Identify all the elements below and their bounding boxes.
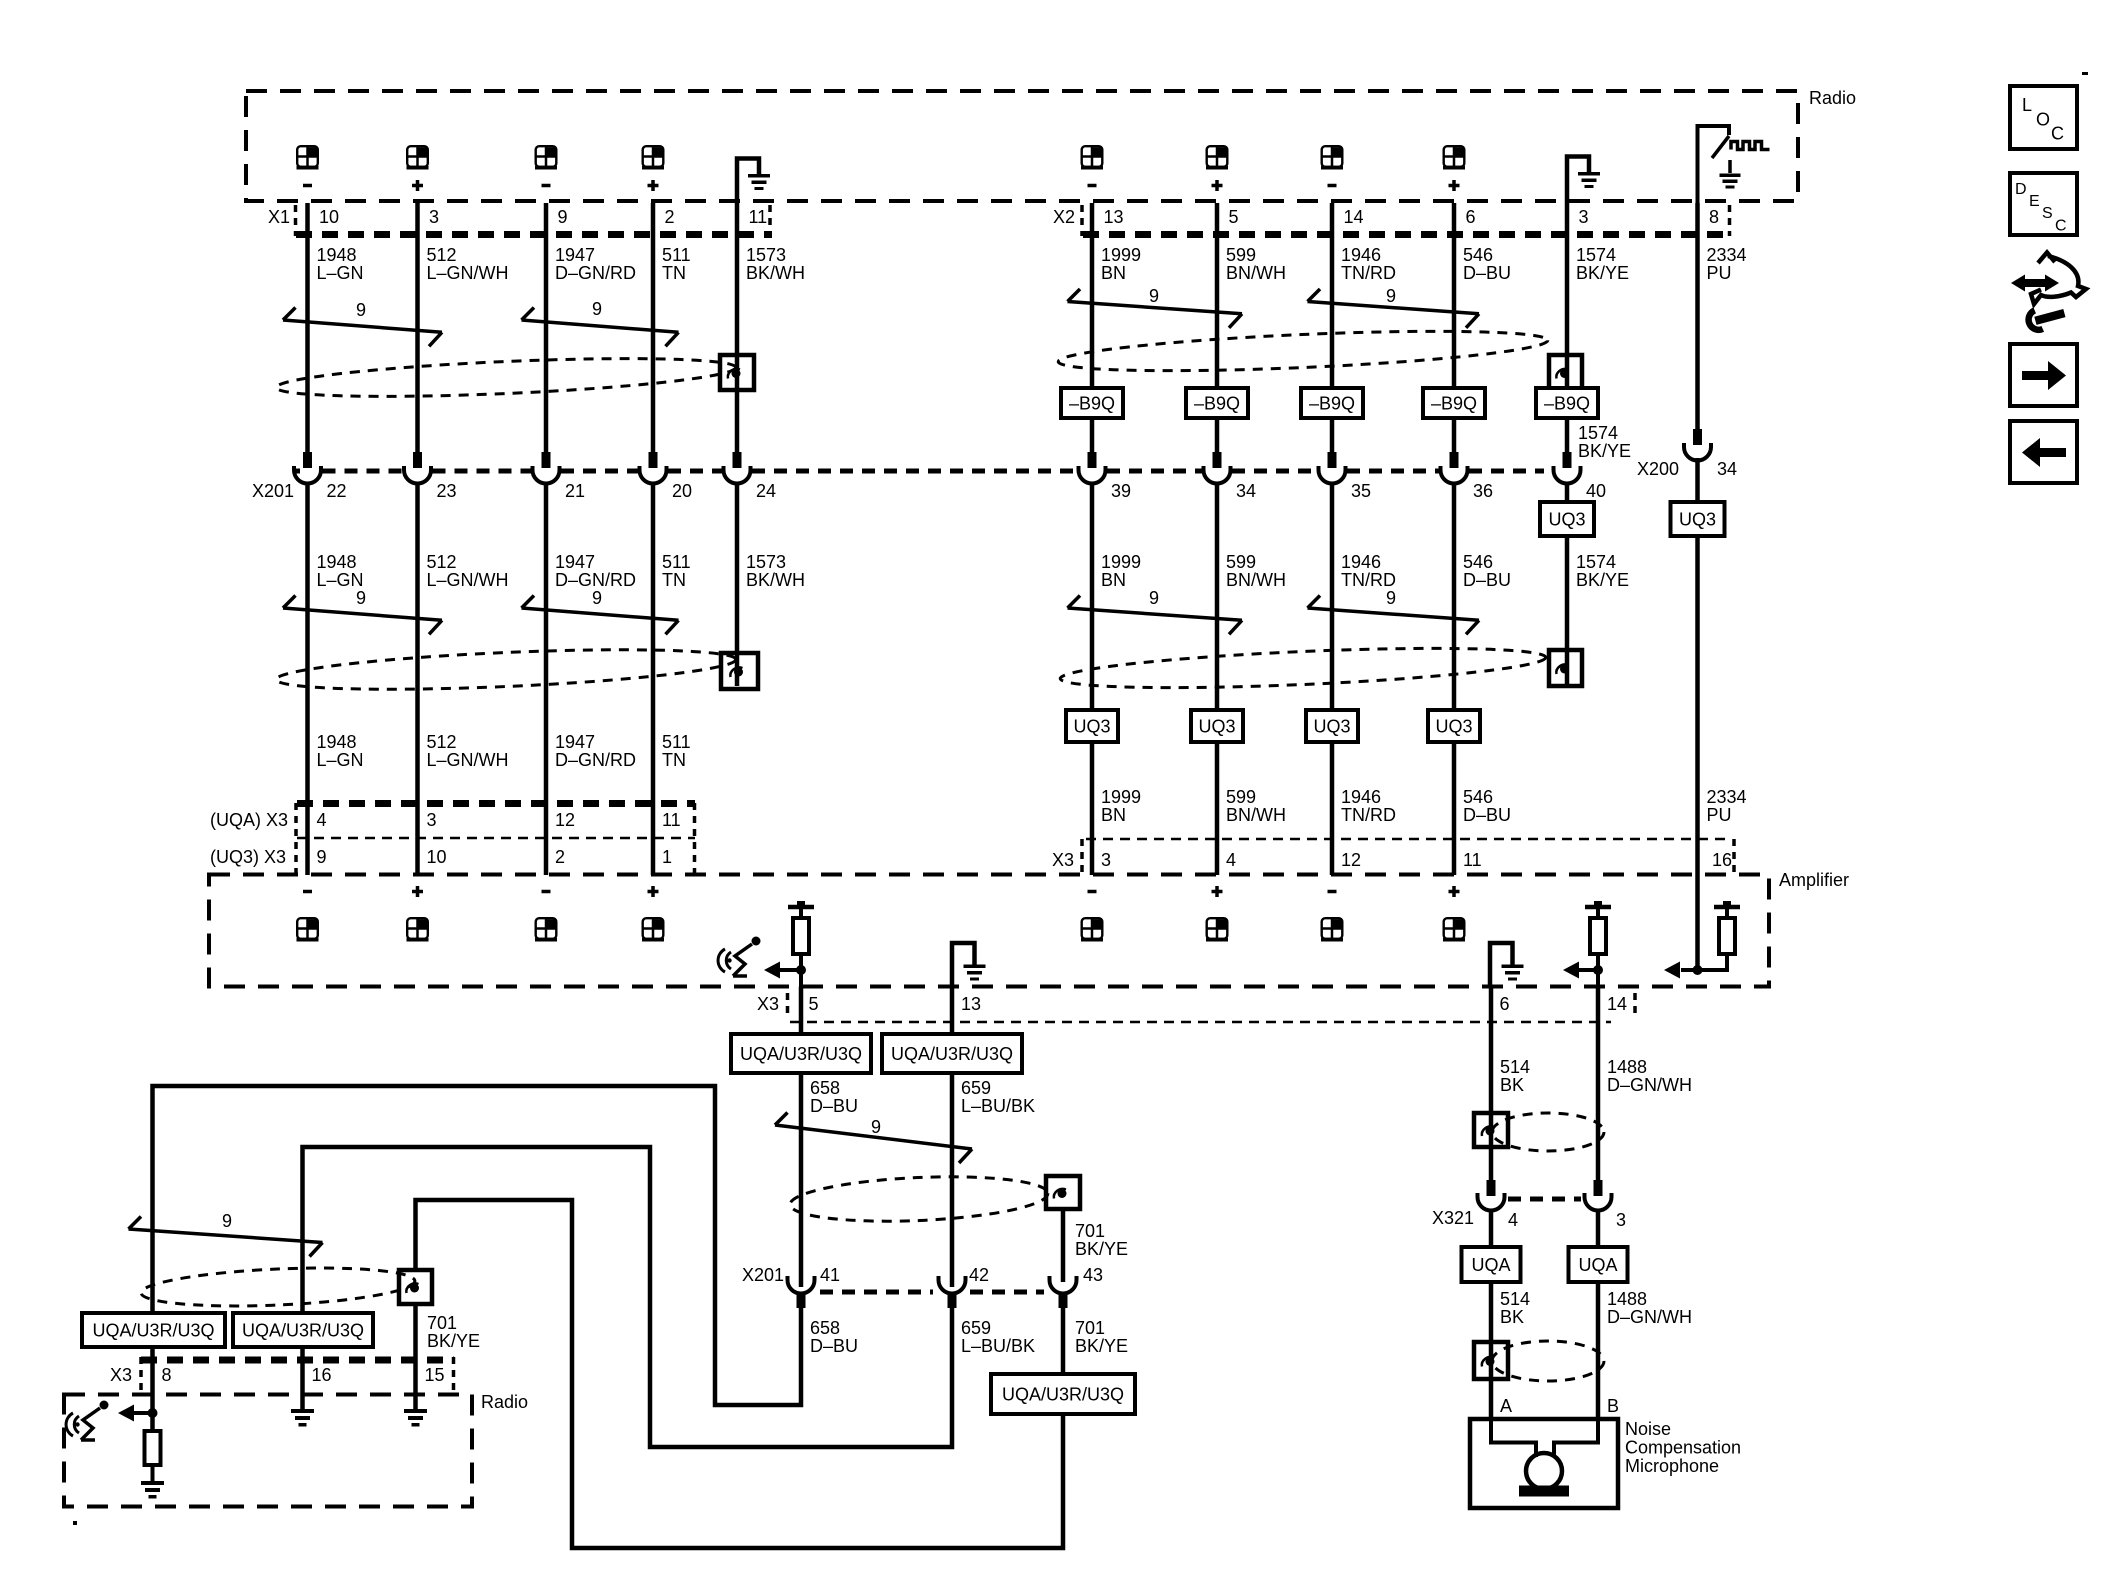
svg-text:599: 599 <box>1226 552 1256 572</box>
svg-text:BK/YE: BK/YE <box>427 1331 480 1351</box>
svg-text:O: O <box>2036 110 2050 130</box>
connector X201 row dotted line <box>293 469 301 474</box>
shield loop (658/659) <box>789 1172 1049 1226</box>
wire 1946 TN/RD <box>1330 203 1335 452</box>
audio output arrow to mic <box>764 962 780 979</box>
svg-text:41: 41 <box>820 1265 840 1285</box>
connector X3 strip (amplifier bottom) <box>786 993 790 1019</box>
svg-text:X321: X321 <box>1432 1208 1474 1228</box>
svg-text:Compensation: Compensation <box>1625 1438 1741 1458</box>
polarity + <box>1212 886 1223 897</box>
ground symbol (radio pin 3 / 1574) <box>1567 157 1589 204</box>
Noise Compensation Microphone box <box>1470 1419 1618 1508</box>
X201 pin 21 <box>542 452 551 468</box>
option box -B9Q <box>1061 388 1123 418</box>
wire 599 BN/WH (middle) <box>1215 484 1220 876</box>
twisted pair marker 9 (1946/546) <box>1308 302 1480 314</box>
svg-text:9: 9 <box>592 299 602 319</box>
microphone pictograph (amplifier) <box>718 937 760 977</box>
svg-text:BK/WH: BK/WH <box>746 263 805 283</box>
svg-text:TN: TN <box>662 750 686 770</box>
svg-text:D–GN/RD: D–GN/RD <box>555 570 636 590</box>
svg-text:BK/YE: BK/YE <box>1576 570 1629 590</box>
svg-text:11: 11 <box>1463 850 1482 870</box>
svg-text:4: 4 <box>1508 1210 1518 1230</box>
X201 pin 35 <box>1328 452 1337 468</box>
junction <box>1693 965 1703 975</box>
stray mark top right <box>2082 72 2088 75</box>
twisted pair marker 9 (1947/511) <box>522 320 679 332</box>
svg-text:UQA/U3R/U3Q: UQA/U3R/U3Q <box>242 1321 364 1341</box>
svg-text:TN/RD: TN/RD <box>1341 263 1396 283</box>
svg-text:13: 13 <box>961 994 981 1014</box>
stray mark bottom left <box>73 1521 77 1525</box>
svg-text:9: 9 <box>1149 286 1159 306</box>
wire 1946 TN/RD (middle) <box>1330 484 1335 876</box>
svg-text:UQ3: UQ3 <box>1313 717 1350 737</box>
connector (UQA) X3 strip <box>297 800 695 807</box>
svg-text:2: 2 <box>665 207 675 227</box>
option box UQA/U3R/U3Q (701) <box>991 1374 1135 1414</box>
svg-text:1948: 1948 <box>317 732 357 752</box>
svg-text:BN/WH: BN/WH <box>1226 570 1286 590</box>
polarity - <box>542 890 551 894</box>
X201 pin 20 <box>649 452 658 468</box>
termination resistor (2334) <box>1723 901 1731 905</box>
legend forward arrow box <box>2010 344 2077 406</box>
svg-text:1946: 1946 <box>1341 787 1381 807</box>
svg-text:3: 3 <box>1579 207 1589 227</box>
svg-text:1573: 1573 <box>746 245 786 265</box>
svg-text:TN: TN <box>662 570 686 590</box>
shield terminal row2 on 1574 <box>1549 650 1582 686</box>
svg-text:12: 12 <box>1341 850 1361 870</box>
svg-text:4: 4 <box>317 810 327 830</box>
svg-text:UQA/U3R/U3Q: UQA/U3R/U3Q <box>92 1321 214 1341</box>
shield loop row2 (left pairs) <box>275 642 736 696</box>
svg-text:A: A <box>1500 1396 1512 1416</box>
junction <box>148 1408 158 1418</box>
wire 1488 D-GN/WH (upper) <box>1596 987 1601 1181</box>
svg-text:2334: 2334 <box>1707 245 1747 265</box>
polarity - <box>542 184 551 188</box>
svg-text:9: 9 <box>1386 286 1396 306</box>
svg-text:6: 6 <box>1466 207 1476 227</box>
speaker symbol <box>1443 146 1465 169</box>
wire radio pin 8 into box <box>150 1347 155 1431</box>
wire 658 D-BU (radio side) <box>153 1086 802 1405</box>
svg-text:9: 9 <box>356 588 366 608</box>
wire 514 continues <box>1489 1282 1494 1419</box>
connector X201 (41/42/43) dashes <box>820 1290 933 1295</box>
shield terminal (mic upper) <box>1474 1113 1508 1147</box>
svg-text:11: 11 <box>749 207 768 227</box>
ground (amplifier pin 6) <box>1490 943 1513 987</box>
svg-text:L–GN/WH: L–GN/WH <box>427 570 509 590</box>
svg-text:–B9Q: –B9Q <box>1431 394 1477 414</box>
svg-text:TN/RD: TN/RD <box>1341 805 1396 825</box>
svg-text:42: 42 <box>969 1265 989 1285</box>
X321 pin 3 <box>1594 1180 1603 1196</box>
wire 1948 L–GN <box>305 203 310 452</box>
speaker symbol <box>1081 146 1103 169</box>
twisted pair marker 9 (1948/512) <box>283 320 442 332</box>
polarity + <box>648 180 659 191</box>
polarity - <box>303 184 312 188</box>
svg-text:S: S <box>2042 205 2053 222</box>
speaker symbol <box>1206 918 1228 941</box>
svg-text:701: 701 <box>1075 1318 1105 1338</box>
svg-text:15: 15 <box>425 1365 445 1385</box>
shield terminal (mic lower) <box>1474 1342 1508 1379</box>
svg-text:L–BU/BK: L–BU/BK <box>961 1096 1035 1116</box>
svg-text:L–BU/BK: L–BU/BK <box>961 1336 1035 1356</box>
svg-text:9: 9 <box>1149 588 1159 608</box>
twisted pair marker 9 (658/659) <box>775 1125 972 1149</box>
wire 514 BK (upper) <box>1489 987 1494 1181</box>
termination resistor (1488) <box>1594 901 1602 905</box>
speaker symbol <box>535 146 557 169</box>
svg-text:X2: X2 <box>1053 207 1075 227</box>
svg-text:1947: 1947 <box>555 732 595 752</box>
svg-text:512: 512 <box>427 732 457 752</box>
svg-text:43: 43 <box>1083 1265 1103 1285</box>
svg-text:3: 3 <box>429 207 439 227</box>
svg-text:1946: 1946 <box>1341 245 1381 265</box>
svg-text:10: 10 <box>427 847 447 867</box>
X201 pin 43 <box>1050 1276 1077 1294</box>
option box UQA/U3R/U3Q (659) <box>882 1034 1022 1073</box>
svg-text:UQA: UQA <box>1471 1255 1510 1275</box>
svg-text:D–BU: D–BU <box>1463 570 1511 590</box>
svg-text:D–BU: D–BU <box>810 1096 858 1116</box>
svg-text:Microphone: Microphone <box>1625 1456 1719 1476</box>
svg-text:L–GN: L–GN <box>317 263 364 283</box>
svg-text:1574: 1574 <box>1578 423 1618 443</box>
svg-text:34: 34 <box>1717 459 1737 479</box>
option box -B9Q <box>1186 388 1248 418</box>
X201 pin 34 <box>1213 452 1222 468</box>
X201 pin 36 <box>1450 452 1459 468</box>
speaker symbol <box>407 146 429 169</box>
svg-text:X200: X200 <box>1637 459 1679 479</box>
svg-text:24: 24 <box>756 481 776 501</box>
svg-text:D–GN/RD: D–GN/RD <box>555 750 636 770</box>
speaker symbol <box>642 918 664 941</box>
shield loop (mic upper) <box>1492 1113 1604 1151</box>
svg-text:D–BU: D–BU <box>1463 805 1511 825</box>
wire 1947 D–GN/RD <box>544 203 549 452</box>
svg-text:1573: 1573 <box>746 552 786 572</box>
wire 1573 BK/WH (middle) <box>735 484 740 687</box>
svg-text:L–GN: L–GN <box>317 570 364 590</box>
svg-text:2334: 2334 <box>1707 787 1747 807</box>
svg-text:1999: 1999 <box>1101 552 1141 572</box>
svg-text:UQ3: UQ3 <box>1435 717 1472 737</box>
wire 659 L-BU/BK (radio side) <box>303 1147 953 1447</box>
ground (radio pin 8 path) <box>141 1481 164 1485</box>
svg-text:D–GN/RD: D–GN/RD <box>555 263 636 283</box>
svg-text:5: 5 <box>1229 207 1239 227</box>
X201 pin 22 <box>303 452 312 468</box>
svg-text:BN/WH: BN/WH <box>1226 805 1286 825</box>
svg-text:511: 511 <box>662 245 691 265</box>
svg-text:B: B <box>1607 1396 1619 1416</box>
speaker symbol <box>535 918 557 941</box>
signal arrow (2334) <box>1664 962 1680 979</box>
twisted pair marker 9 row2 (1947/511) <box>522 608 679 620</box>
option box -B9Q <box>1536 388 1598 418</box>
wire 2334 PU (long run) <box>1695 458 1700 970</box>
svg-text:–B9Q: –B9Q <box>1309 394 1355 414</box>
twisted pair marker 9 row2 (1948/512) <box>283 608 442 620</box>
svg-text:9: 9 <box>558 207 568 227</box>
svg-text:BN: BN <box>1101 263 1126 283</box>
X201 pin 41 <box>788 1276 815 1294</box>
svg-text:1488: 1488 <box>1607 1289 1647 1309</box>
speaker symbol <box>1321 918 1343 941</box>
wire 1999 BN <box>1090 203 1095 452</box>
svg-text:Amplifier: Amplifier <box>1779 870 1849 890</box>
junction <box>796 965 806 975</box>
twisted pair marker 9 (radio 8/16) <box>129 1229 323 1243</box>
svg-text:659: 659 <box>961 1318 991 1338</box>
svg-text:1948: 1948 <box>317 245 357 265</box>
svg-text:Radio: Radio <box>1809 88 1856 108</box>
ground (amplifier pin 13) <box>952 943 975 987</box>
wire 599 BN/WH <box>1215 203 1220 452</box>
svg-text:8: 8 <box>1709 207 1719 227</box>
svg-text:9: 9 <box>1386 588 1396 608</box>
wire 658 D-BU <box>799 987 804 1035</box>
wire to radio pin 15 <box>413 1304 418 1409</box>
svg-text:9: 9 <box>317 847 327 867</box>
option box -B9Q <box>1301 388 1363 418</box>
svg-text:TN: TN <box>662 263 686 283</box>
twisted pair marker 9 row2 (1999/599) <box>1068 608 1243 620</box>
svg-text:21: 21 <box>565 481 585 501</box>
wire 1488 D-GN/WH (lower) <box>1596 1211 1601 1248</box>
svg-text:TN/RD: TN/RD <box>1341 570 1396 590</box>
X201 pin 24 <box>733 452 742 468</box>
svg-text:X3: X3 <box>757 994 779 1014</box>
svg-text:9: 9 <box>222 1211 232 1231</box>
wire 1948 L-GN (middle) <box>305 484 310 876</box>
svg-text:L–GN/WH: L–GN/WH <box>427 750 509 770</box>
polarity + <box>648 886 659 897</box>
svg-text:16: 16 <box>1712 850 1732 870</box>
svg-text:D: D <box>2015 181 2027 198</box>
connector X3 strip (amplifier right) <box>1086 838 1731 841</box>
shield terminal (701) <box>1046 1176 1080 1209</box>
wire 1573 BK/WH <box>735 203 740 452</box>
svg-text:3: 3 <box>1616 1210 1626 1230</box>
svg-text:34: 34 <box>1236 481 1256 501</box>
svg-text:12: 12 <box>555 810 575 830</box>
Radio (bottom) dashed enclosure <box>64 1395 472 1507</box>
speaker symbol <box>1443 918 1465 941</box>
svg-text:BN/WH: BN/WH <box>1226 263 1286 283</box>
svg-text:3: 3 <box>427 810 437 830</box>
polarity + <box>1449 180 1460 191</box>
option box -B9Q <box>1423 388 1485 418</box>
svg-text:(UQA) X3: (UQA) X3 <box>210 810 288 830</box>
connector X3 strip (radio bottom) <box>141 1357 454 1364</box>
wire 658 D-BU continues <box>799 1073 804 1287</box>
polarity - <box>1328 184 1337 188</box>
shield loop (radio) <box>140 1263 415 1311</box>
svg-text:BK/WH: BK/WH <box>746 570 805 590</box>
wire 659 L-BU/BK continues <box>950 1073 955 1287</box>
legend DESC box <box>2010 173 2077 235</box>
polarity - <box>303 890 312 894</box>
speaker symbol <box>297 918 319 941</box>
junction <box>1593 965 1603 975</box>
speaker symbol <box>1321 146 1343 169</box>
svg-text:UQA/U3R/U3Q: UQA/U3R/U3Q <box>740 1044 862 1064</box>
wire 1999 BN (middle) <box>1090 484 1095 876</box>
svg-text:C: C <box>2051 124 2064 144</box>
X201 pin 39 <box>1088 452 1097 468</box>
svg-text:9: 9 <box>356 300 366 320</box>
svg-text:512: 512 <box>427 552 457 572</box>
svg-text:D–BU: D–BU <box>1463 263 1511 283</box>
svg-text:BK: BK <box>1500 1307 1524 1327</box>
svg-text:9: 9 <box>871 1117 881 1137</box>
connector X1 strip <box>294 205 298 236</box>
option box UQ3 (1999) <box>1066 710 1118 742</box>
svg-text:14: 14 <box>1607 994 1627 1014</box>
svg-text:16: 16 <box>312 1365 332 1385</box>
svg-text:(UQ3) X3: (UQ3) X3 <box>210 847 286 867</box>
polarity + <box>1449 886 1460 897</box>
wire 701 BK/YE (drain) <box>1061 1209 1066 1282</box>
polarity - <box>1328 890 1337 894</box>
option box UQA/U3R/U3Q (658) <box>731 1034 871 1073</box>
svg-text:546: 546 <box>1463 787 1493 807</box>
option box UQ3 (pin 40) <box>1540 502 1594 536</box>
svg-text:Radio: Radio <box>481 1392 528 1412</box>
microphone pictograph (radio) <box>66 1401 108 1441</box>
twisted pair marker 9 (1999/599) <box>1068 302 1243 314</box>
svg-text:Noise: Noise <box>1625 1419 1671 1439</box>
svg-text:C: C <box>2055 218 2067 235</box>
svg-text:BN: BN <box>1101 805 1126 825</box>
svg-text:5: 5 <box>809 994 819 1014</box>
wires into microphone <box>1491 1419 1536 1457</box>
svg-text:BK/YE: BK/YE <box>1578 441 1631 461</box>
shield terminal on 1574 <box>1549 355 1582 390</box>
svg-text:X3: X3 <box>110 1365 132 1385</box>
svg-text:L–GN: L–GN <box>317 750 364 770</box>
polarity - <box>1088 890 1097 894</box>
speaker symbol <box>1206 146 1228 169</box>
termination resistor (radio) <box>145 1431 161 1465</box>
svg-text:14: 14 <box>1344 207 1364 227</box>
speaker symbol <box>297 146 319 169</box>
twisted pair marker 9 row2 (1946/546) <box>1308 608 1480 620</box>
svg-text:–B9Q: –B9Q <box>1069 394 1115 414</box>
svg-text:X1: X1 <box>268 207 290 227</box>
shield terminal on 1573 <box>720 355 754 390</box>
svg-text:BK/YE: BK/YE <box>1075 1239 1128 1259</box>
svg-text:BN: BN <box>1101 570 1126 590</box>
svg-text:UQ3: UQ3 <box>1679 510 1716 530</box>
svg-text:PU: PU <box>1707 805 1732 825</box>
svg-text:D–GN/WH: D–GN/WH <box>1607 1307 1692 1327</box>
svg-text:659: 659 <box>961 1078 991 1098</box>
svg-text:2: 2 <box>555 847 565 867</box>
svg-text:1574: 1574 <box>1576 245 1616 265</box>
svg-text:546: 546 <box>1463 245 1493 265</box>
svg-text:9: 9 <box>592 588 602 608</box>
connector X200 pin 34 <box>1693 429 1702 445</box>
svg-text:11: 11 <box>662 810 681 830</box>
svg-text:BK/YE: BK/YE <box>1576 263 1629 283</box>
svg-text:599: 599 <box>1226 245 1256 265</box>
option box UQA/U3R/U3Q (radio pin 16) <box>233 1313 373 1347</box>
svg-text:23: 23 <box>437 481 457 501</box>
option box UQ3 (546) <box>1428 710 1480 742</box>
ground (radio pin 16) <box>291 1409 314 1413</box>
wire 546 D–BU <box>1452 203 1457 452</box>
shield loop (mic lower) <box>1492 1341 1604 1381</box>
svg-text:UQA: UQA <box>1578 1255 1617 1275</box>
wire 1947 D-GN/RD (middle) <box>544 484 549 876</box>
wire 511 TN (middle) <box>651 484 656 876</box>
X201 pin 42 <box>939 1276 966 1294</box>
svg-text:40: 40 <box>1586 481 1606 501</box>
ground symbol (radio pin 11 / 1573) <box>737 159 759 204</box>
svg-text:X3: X3 <box>1052 850 1074 870</box>
speaker symbol <box>407 918 429 941</box>
polarity + <box>412 886 423 897</box>
svg-text:1999: 1999 <box>1101 787 1141 807</box>
legend back arrow box <box>2010 421 2077 483</box>
svg-text:36: 36 <box>1473 481 1493 501</box>
svg-text:1999: 1999 <box>1101 245 1141 265</box>
svg-text:6: 6 <box>1500 994 1510 1014</box>
option box UQ3 (599) <box>1191 710 1243 742</box>
svg-text:1488: 1488 <box>1607 1057 1647 1077</box>
option box UQA/U3R/U3Q (radio pin 8) <box>82 1313 225 1347</box>
svg-text:1946: 1946 <box>1341 552 1381 572</box>
svg-text:UQA/U3R/U3Q: UQA/U3R/U3Q <box>1002 1385 1124 1405</box>
svg-text:L: L <box>2022 95 2032 115</box>
svg-text:20: 20 <box>672 481 692 501</box>
wire 1574 BK/YE (middle) <box>1565 484 1570 685</box>
svg-text:13: 13 <box>1104 207 1124 227</box>
svg-text:8: 8 <box>162 1365 172 1385</box>
svg-text:1947: 1947 <box>555 245 595 265</box>
svg-text:D–GN/WH: D–GN/WH <box>1607 1075 1692 1095</box>
svg-text:1947: 1947 <box>555 552 595 572</box>
shield terminal row2 on 1573 <box>721 653 758 689</box>
speaker symbol <box>642 146 664 169</box>
svg-text:4: 4 <box>1226 850 1236 870</box>
option box UQA (514) <box>1462 1247 1521 1282</box>
wire 512 L–GN/WH <box>415 203 420 452</box>
svg-text:1: 1 <box>662 847 672 867</box>
svg-text:512: 512 <box>427 245 457 265</box>
svg-text:658: 658 <box>810 1318 840 1338</box>
polarity + <box>412 180 423 191</box>
wire to ground <box>151 1465 155 1481</box>
svg-text:701: 701 <box>427 1313 457 1333</box>
svg-text:UQA/U3R/U3Q: UQA/U3R/U3Q <box>891 1044 1013 1064</box>
audio arrow (radio) <box>118 1405 134 1422</box>
speaker symbol <box>1081 918 1103 941</box>
